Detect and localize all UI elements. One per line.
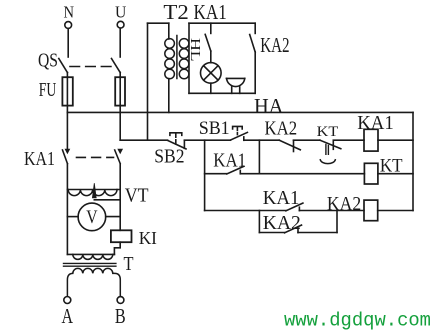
- svg-text:SB1: SB1: [199, 118, 230, 139]
- svg-text:www.dgdqw.com: www.dgdqw.com: [284, 310, 431, 332]
- wire QS right to FU: [119, 73, 121, 78]
- svg-text:KA1: KA1: [24, 148, 55, 170]
- SB1 right tick: [243, 137, 245, 140]
- SB1 actuator cap: [233, 126, 243, 129]
- KA1 row3 tick: [298, 207, 300, 210]
- contact KA1 row3 blade: [286, 203, 303, 211]
- transformer T core lines: [64, 262, 116, 264]
- SB2 right post: [183, 140, 185, 148]
- svg-text:KA2: KA2: [327, 193, 361, 215]
- wire box left edge (T2 secondary conductor): [188, 23, 190, 93]
- voltmeter right stub: [106, 216, 121, 218]
- QS mechanical dashed link: [70, 66, 111, 68]
- contact KT delay blade: [320, 140, 341, 149]
- svg-text:HL: HL: [188, 38, 203, 62]
- contact KA1 row2 blade: [227, 166, 244, 174]
- coil KA1 rectangle: [364, 129, 378, 151]
- wire KT contact to KA1 coil: [333, 139, 364, 141]
- svg-text:VT: VT: [125, 184, 149, 206]
- svg-text:T: T: [124, 254, 134, 275]
- contact KA2 branch terminal: [254, 23, 256, 33]
- bell HA top line: [226, 77, 244, 79]
- contactor KA1 main right blade: [115, 150, 121, 164]
- svg-text:KA2: KA2: [260, 33, 289, 57]
- node N terminal circle: [65, 22, 72, 29]
- KA2 NC tick: [293, 140, 295, 151]
- wire row4 right segment: [298, 232, 337, 234]
- T2 primary conductor upper: [168, 23, 170, 39]
- contactor KA1 main right arrowhead: [118, 149, 122, 153]
- transformer T2 left line: [147, 23, 149, 140]
- wire KA1 coil to right rail: [378, 139, 413, 141]
- svg-text:KA2: KA2: [263, 212, 301, 234]
- wire junction J1 vertical: [204, 140, 206, 210]
- autotransformer VT winding arcs: [68, 190, 117, 196]
- svg-text:KA1: KA1: [213, 150, 246, 172]
- KA2 row4 tick: [297, 229, 299, 232]
- transformer T primary arcs: [73, 254, 113, 259]
- VT wiper arrow: [92, 183, 96, 198]
- svg-text:FU: FU: [39, 80, 57, 101]
- pushbutton SB1 blade: [230, 132, 247, 140]
- T2 core line: [176, 36, 178, 79]
- fuse FU right: [115, 77, 125, 105]
- wire row2 to KT coil: [240, 173, 364, 175]
- KA1 row2 tick: [239, 170, 241, 173]
- svg-text:KT: KT: [380, 157, 403, 177]
- SB2 actuator stem dashed: [175, 133, 177, 145]
- wire left column rail to KA1 main contact: [66, 112, 68, 150]
- wire junction J2 vertical: [258, 140, 260, 174]
- wire blade to lamp: [210, 51, 212, 63]
- contact KA1 lamp-branch blade: [205, 34, 211, 51]
- lamp HL circle: [201, 63, 222, 84]
- transformer T secondary: [67, 268, 120, 296]
- transformer T2 primary loops: [165, 39, 175, 79]
- wire row2 left segment: [205, 173, 227, 175]
- fuse FU left: [62, 77, 72, 105]
- voltmeter left stub: [67, 216, 78, 218]
- node B terminal circle: [117, 297, 124, 304]
- wire KT coil to right rail: [378, 173, 413, 175]
- node U terminal circle: [117, 21, 124, 28]
- autotransformer VT winding line: [67, 189, 120, 191]
- KT delay stems: [326, 144, 329, 154]
- transformer T primary line: [67, 253, 114, 255]
- wire QS left to FU: [66, 73, 68, 78]
- wire SB1 to KA2 contact: [244, 139, 279, 141]
- svg-text:SB2: SB2: [154, 145, 184, 167]
- T2 top connection: [148, 22, 169, 24]
- svg-text:KA1: KA1: [357, 112, 394, 134]
- wire KI bottom jog: [114, 242, 120, 254]
- wire lamp to bottom rail: [210, 83, 212, 93]
- svg-text:U: U: [115, 3, 126, 22]
- relay KI rectangle: [111, 230, 132, 242]
- wire row3 segment: [205, 210, 286, 212]
- svg-text:HA: HA: [254, 94, 284, 118]
- wire KA2 to KT contact: [294, 139, 321, 141]
- KA1 main dashed link: [77, 156, 114, 158]
- contact KA2 NC blade: [279, 140, 300, 150]
- wire right column contact to KI: [119, 164, 121, 231]
- svg-text:KA2: KA2: [265, 117, 298, 139]
- svg-text:KT: KT: [317, 124, 339, 140]
- switch QS left blade: [59, 59, 68, 73]
- KT tick: [332, 140, 334, 149]
- wire left column contact to T primary: [66, 164, 68, 255]
- svg-text:QS: QS: [38, 50, 58, 71]
- wire left column FU to rail: [66, 106, 68, 113]
- SB1 actuator stem dashed: [236, 127, 238, 135]
- wire junction rail: [67, 111, 413, 113]
- svg-text:B: B: [115, 304, 126, 328]
- coil KT rectangle: [364, 163, 378, 184]
- svg-text:V: V: [86, 207, 98, 228]
- svg-text:N: N: [64, 3, 75, 22]
- wire junction row4 right vertical: [336, 211, 338, 233]
- voltmeter V circle: [78, 203, 106, 231]
- wire junction row4 left vertical: [258, 211, 260, 233]
- KT delay cup arc: [320, 160, 335, 164]
- pushbutton SB2 blade: [168, 140, 187, 149]
- transformer T2 secondary loops: [179, 39, 189, 79]
- svg-text:A: A: [61, 304, 73, 328]
- coil KA2 rectangle: [364, 200, 378, 221]
- contactor KA1 main left blade: [63, 150, 68, 164]
- wire right rail: [412, 112, 414, 210]
- node A terminal circle: [64, 297, 71, 304]
- VT tap wire: [94, 199, 120, 201]
- svg-text:KA1: KA1: [194, 0, 227, 24]
- wire box bottom rail: [189, 92, 255, 94]
- wire box right edge lower: [254, 52, 256, 93]
- wire U down to QS: [119, 28, 121, 57]
- svg-text:T2: T2: [163, 0, 188, 24]
- wire SB2 to SB1: [184, 139, 230, 141]
- contact KA2 branch blade: [250, 35, 256, 53]
- svg-text:KI: KI: [139, 228, 157, 248]
- SB2 actuator cap: [170, 133, 182, 136]
- T2 primary conductor lower to rail: [168, 79, 170, 113]
- wire KA2 coil to right rail: [378, 210, 413, 212]
- wire right column FU down to row1 corner: [119, 106, 121, 141]
- contact KA1 lamp-branch terminal: [210, 23, 212, 33]
- contactor KA1 main left arrowhead: [65, 149, 69, 153]
- bell HA legs: [232, 87, 240, 93]
- switch QS right blade: [112, 59, 121, 73]
- wire row1 left segment: [120, 139, 167, 141]
- contact KA2 row4 blade: [285, 225, 302, 233]
- wire N down to QS: [67, 29, 69, 58]
- bell HA dome: [227, 78, 245, 86]
- lamp HL cross: [204, 66, 218, 80]
- wire box top rail: [189, 22, 255, 24]
- wire row3 to KA2 coil: [299, 210, 364, 212]
- svg-text:KA1: KA1: [263, 187, 300, 209]
- wire row4 segment: [259, 232, 284, 234]
